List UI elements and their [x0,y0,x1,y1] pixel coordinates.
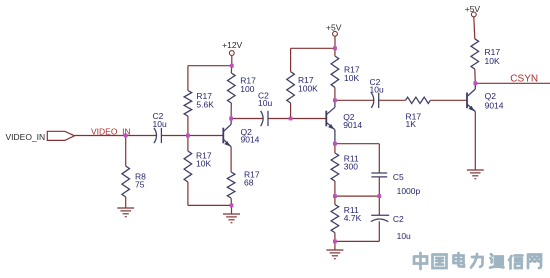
wire R17 100K stubs [290,48,292,71]
resistor R11 4.7K [331,205,339,233]
power +12V circle [229,51,234,56]
resistor R17 10K output [471,39,479,69]
wire C2#2 to 100K node to Q2 base [268,118,326,120]
svg-text:C5: C5 [393,172,404,182]
svg-text:10u: 10u [397,231,411,241]
wire R17 10K stubs stage1 [187,136,189,152]
svg-text:10K: 10K [344,73,359,83]
svg-text:300: 300 [344,162,358,172]
resistor R17 10K stage1 [184,151,192,182]
svg-text:5.6K: 5.6K [196,100,214,110]
capacitor C2 10u interstage [261,111,264,126]
svg-text:9014: 9014 [343,120,362,130]
svg-text:+12V: +12V [222,40,242,50]
capacitor C5 1000p [371,172,387,174]
svg-text:10K: 10K [196,159,211,169]
capacitor C2 10u bypass [371,214,389,216]
node +5V rail [333,46,337,50]
svg-text:CSYN: CSYN [510,73,538,84]
wire R17 10K stage2 stubs [334,48,336,56]
node Q2 emitter [333,142,337,146]
node stage1 ground [230,204,234,208]
svg-text:10u: 10u [258,98,272,108]
node Q2 collector [333,98,337,102]
resistor R17 5.6K [184,91,192,117]
svg-text:Q2: Q2 [485,91,497,101]
node input/R8 [124,134,128,138]
wire R17 5.6K top stub [187,66,189,91]
node C5/C2 mid right [377,194,381,198]
wire ground row stage1 [188,204,232,206]
capacitor C2 10u to output [371,93,374,108]
svg-text:VIDEO_IN: VIDEO_IN [91,126,131,136]
wire R8 bottom to ground [125,197,127,208]
ground G2 stage1 [223,213,240,215]
power +12V stem [231,55,233,65]
wire R17 68 stubs [230,147,232,172]
resistor R17 68 [227,172,235,198]
svg-text:10K: 10K [485,56,500,66]
wire bottom row stage2 [335,240,379,242]
svg-text:+5V: +5V [465,4,481,14]
ground G1 below R8 [117,207,134,209]
wire R11 300 stubs [334,144,336,153]
wire R17 1K to Q3 base [430,99,467,101]
resistor R17 1K [406,97,431,103]
svg-text:VIDEO_IN: VIDEO_IN [6,132,46,142]
capacitor C2 10u input [154,128,157,143]
node stage2 bottom [333,240,337,244]
svg-text:9014: 9014 [241,135,260,145]
wire collector row stage2 to C2#3 [335,99,374,101]
wire top rail stage2 [291,47,335,49]
resistor R17 100K [287,72,295,103]
transistor Q2 9014 stage2 [325,111,327,127]
svg-text:+5V: +5V [326,22,342,32]
port VIDEO_IN [47,131,74,140]
wire CSYN out [475,82,550,84]
power +5V stem output [474,17,475,39]
svg-text:10u: 10u [370,85,384,95]
wire R11 4.7K stubs [334,196,336,204]
svg-text:1000p: 1000p [397,186,421,196]
node 100K/base Q2 [289,117,293,121]
resistor R17 100 [228,73,236,103]
transistor Q1 9014 [222,128,224,144]
wire top rail stage1 [188,65,232,67]
wire R17 5.6K bottom stub [187,116,189,136]
wire right rail top (to C5) [378,144,380,173]
node +12V rail [230,64,234,68]
wire input from port to C2 [75,135,157,137]
wire emitter row stage2 [335,143,379,145]
svg-text:75: 75 [135,180,145,190]
svg-text:68: 68 [244,178,254,188]
svg-text:9014: 9014 [485,100,504,110]
svg-text:C2: C2 [393,214,404,224]
wire R17 10K out bottom to CSYN node [474,69,477,83]
wire R17 100 bottom to collector node [230,103,232,119]
transistor Q3 9014 output [466,93,468,109]
wire R8 branch down [125,136,127,167]
ground G4 output [467,169,484,171]
svg-text:1K: 1K [406,119,417,129]
node CSYN [473,81,477,85]
power +5V stem stage2 [334,36,336,48]
wire stage2 ground stem [334,241,336,250]
power +5V circle output [471,12,476,17]
watermark 中国电力通信网 [414,253,541,269]
resistor R8 75 [122,166,130,197]
wire mid row stage2 [335,195,379,197]
node R11 mid left [333,194,337,198]
wire base node to Q1 base [188,135,223,137]
node divider/base Q1 [186,134,190,138]
power +5V circle stage2 [333,31,338,36]
wire Q3 emitter down [474,112,476,171]
wire +12V junction down to R17 100 [230,66,233,73]
wire C2 out to base node [161,135,188,137]
wire stage1 ground stem [231,205,233,214]
wire C2#4 to bottom row [378,221,380,241]
wire collector row stage1 to C2#2 [231,118,263,120]
ground G3 stage2 [326,249,343,251]
wire C5 to mid junction [378,177,380,215]
wire C2#3 to R17 1K [379,99,406,101]
svg-text:100: 100 [240,84,254,94]
resistor R11 300 [331,153,339,181]
svg-text:4.7K: 4.7K [344,213,362,223]
node Q1 collector [229,117,233,121]
svg-text:10u: 10u [153,119,167,129]
resistor R17 10K stage2 [331,56,339,87]
svg-text:100K: 100K [298,84,318,94]
